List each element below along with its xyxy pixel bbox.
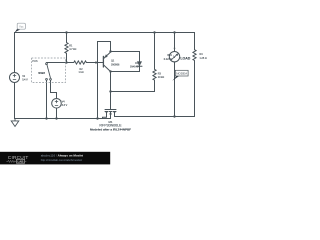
transistor Q1 [102,56,104,67]
resistor R2 [67,61,103,64]
svg-text:abcdec116 / Always on Mosfet: abcdec116 / Always on Mosfet [41,153,83,157]
wire drain [115,116,195,118]
dashed selection box [32,58,66,83]
svg-text:R3: R3 [158,72,162,75]
svg-text:SW2: SW2 [38,71,45,75]
NODEA callout [172,70,188,80]
resistor R4 [193,33,196,117]
switch SW2 [46,63,48,65]
wire switch right to V4 [51,80,57,98]
wire node to switch [47,62,67,64]
labels [22,44,207,131]
svg-text:POS: POS [32,59,38,63]
svg-text:LAB: LAB [18,160,24,164]
svg-text:3.3 V: 3.3 V [62,104,68,107]
svg-text:R4: R4 [200,53,204,56]
svg-text:LOAD: LOAD [180,57,190,61]
wire bottom rail [15,118,111,120]
svg-text:4.7 kΩ: 4.7 kΩ [69,48,76,51]
voltage source V4 [52,99,62,109]
diode D1 loop [111,52,140,72]
footer bar [0,152,110,165]
footer logo CIRCUIT LAB [6,155,28,164]
wire gate [110,92,112,110]
Vcc callout [15,23,26,32]
svg-text:10 kΩ: 10 kΩ [158,76,165,79]
junction dots [45,31,175,119]
svg-text:http://circuitlab.com/c/abc6/m: http://circuitlab.com/c/abc6/mosfet/ [41,158,83,162]
svg-text:1.25 Ω: 1.25 Ω [200,57,207,60]
resistor R1 [65,33,68,63]
wire left rail upper [14,33,16,73]
wire top rail [15,32,195,34]
svg-text:1 kΩ: 1 kΩ [79,71,84,74]
svg-text:NODEA: NODEA [176,72,188,76]
svg-text:1N4148: 1N4148 [130,65,139,68]
svg-text:Q1: Q1 [111,60,115,63]
voltmeter VM1 [174,33,176,52]
ground [11,119,19,127]
wire emitter staple to ground [98,42,111,119]
svg-text:Vcc: Vcc [19,25,24,29]
svg-text:R1: R1 [69,44,73,47]
svg-text:VM1: VM1 [167,54,173,57]
mosfet M1 [105,109,116,111]
svg-text:0.227 V: 0.227 V [164,58,173,61]
svg-text:5.4 V: 5.4 V [22,79,28,82]
footer text [41,153,83,161]
resistor R3 [111,33,157,92]
wire switch left to rail [46,80,48,118]
wire V4 to rail [56,108,58,118]
voltage source V2 [10,73,20,83]
svg-text:Modeled after a IRLZ44NPBF: Modeled after a IRLZ44NPBF [90,127,131,131]
wire collector down [110,72,112,92]
svg-text:2N3906: 2N3906 [111,63,120,66]
wire left rail lower [14,83,16,119]
